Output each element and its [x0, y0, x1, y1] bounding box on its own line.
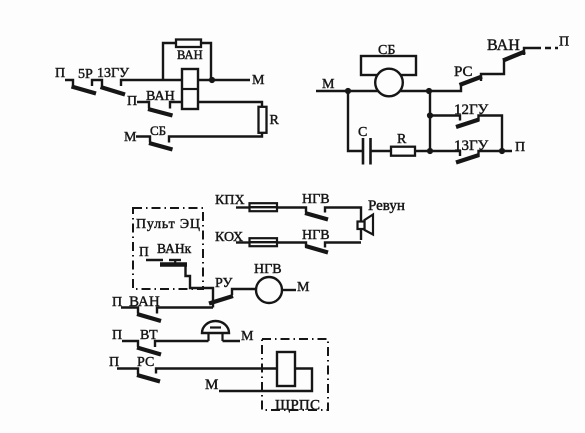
- fuse КПХ: [250, 203, 278, 211]
- wire 12ГУ branch: [430, 116, 460, 121]
- wire: [232, 289, 256, 295]
- wire zigzag to РУ: [186, 266, 214, 308]
- svg-text:М: М: [297, 280, 310, 295]
- switch 13ГУ blade: [456, 155, 479, 163]
- wire: [169, 133, 262, 143]
- wire: [121, 308, 138, 314]
- svg-text:П: П: [127, 94, 137, 109]
- switch 5Р blade: [72, 87, 97, 94]
- svg-text:М: М: [205, 377, 218, 393]
- resistor ВАН: [176, 40, 201, 48]
- svg-text:Ревун: Ревун: [368, 198, 405, 214]
- svg-text:СБ: СБ: [150, 123, 166, 138]
- svg-text:R: R: [397, 132, 407, 147]
- svg-text:М: М: [322, 77, 335, 92]
- wire: [155, 341, 209, 347]
- svg-text:М: М: [252, 73, 265, 88]
- wire: [236, 206, 251, 208]
- wire coil to R: [198, 102, 262, 107]
- resistor R: [259, 107, 267, 133]
- bell СБ gong: [375, 69, 403, 97]
- switch 13ГУ blade: [101, 87, 126, 95]
- bell СБ box: [361, 56, 416, 75]
- wire: [122, 341, 138, 347]
- svg-text:П: П: [112, 328, 122, 343]
- wire: [479, 151, 513, 157]
- svg-text:СБ: СБ: [378, 43, 395, 58]
- svg-text:П: П: [55, 66, 65, 81]
- capacitor С: [363, 138, 371, 165]
- relay coil ВАН: [182, 69, 198, 109]
- relay coil ЩРПС: [277, 352, 295, 386]
- wire: [219, 369, 312, 392]
- svg-text:НГВ: НГВ: [302, 228, 330, 243]
- wire 13ГУ branch: [430, 151, 460, 156]
- wire: [371, 150, 392, 152]
- wire: [170, 102, 182, 109]
- junction dot: [345, 88, 351, 94]
- svg-text:П: П: [139, 244, 149, 259]
- bell ВТ: [202, 321, 229, 333]
- wire resistor branch: [163, 43, 211, 81]
- svg-text:Пульт ЭЦ: Пульт ЭЦ: [136, 217, 200, 232]
- switch СБ blade: [149, 143, 173, 150]
- wire: [481, 60, 504, 81]
- resistor R: [391, 147, 415, 156]
- switch НГВ blade (upper): [305, 213, 328, 220]
- wire: [415, 91, 430, 151]
- switch НГВ blade (lower): [306, 246, 329, 253]
- junction dot: [426, 88, 432, 94]
- svg-text:РС: РС: [137, 355, 154, 370]
- wire: [479, 116, 503, 152]
- junction dot: [499, 148, 505, 154]
- wire: [156, 369, 277, 374]
- wire staircase: [429, 85, 461, 92]
- wire: [137, 102, 149, 109]
- junction dot: [427, 148, 433, 154]
- svg-text:РУ: РУ: [215, 276, 232, 291]
- horn Ревун: [365, 215, 374, 235]
- switch РУ blade: [209, 296, 233, 304]
- fuse КОХ: [250, 238, 278, 246]
- svg-text:РС: РС: [454, 64, 473, 80]
- svg-text:13ГУ: 13ГУ: [97, 66, 129, 81]
- switch ВАН blade: [148, 109, 173, 116]
- wire: [136, 137, 150, 143]
- wire: [92, 80, 102, 86]
- junction dot: [209, 77, 215, 83]
- wire: [117, 369, 138, 375]
- junction dot: [427, 112, 433, 118]
- switch 12ГУ blade: [456, 120, 479, 128]
- svg-text:R: R: [270, 113, 280, 128]
- wire: [223, 340, 241, 342]
- switch РС blade: [460, 77, 483, 86]
- svg-text:П: П: [112, 295, 122, 310]
- wire: [157, 308, 213, 314]
- svg-text:ВАНк: ВАНк: [157, 241, 192, 256]
- svg-text:5Р: 5Р: [78, 67, 93, 82]
- svg-text:НГВ: НГВ: [302, 192, 330, 207]
- svg-text:М: М: [124, 130, 137, 145]
- wire: [146, 259, 163, 261]
- pushbutton ВАНк: [160, 262, 187, 266]
- wire: [282, 289, 296, 291]
- wire: [524, 48, 535, 55]
- wire: [316, 90, 429, 92]
- svg-text:ЩРПС: ЩРПС: [275, 398, 320, 414]
- svg-text:НГВ: НГВ: [254, 262, 282, 277]
- wire dashed to П: [535, 47, 558, 49]
- svg-text:П: П: [559, 35, 569, 50]
- wire: [325, 208, 361, 241]
- wire: [325, 243, 361, 248]
- wire: [198, 79, 250, 81]
- switch РС blade: [137, 375, 160, 382]
- dash-dot box Пульт ЭЦ: [133, 208, 203, 289]
- switch ВТ blade: [137, 348, 161, 355]
- wire left branch: [348, 91, 363, 151]
- svg-text:С: С: [358, 125, 367, 140]
- svg-text:КПХ: КПХ: [215, 193, 245, 208]
- svg-text:ВАН: ВАН: [487, 37, 520, 54]
- dash-dot box ЩРПС: [262, 339, 328, 410]
- svg-text:ВАН: ВАН: [177, 48, 203, 62]
- svg-text:П: П: [515, 140, 525, 155]
- svg-text:М: М: [241, 329, 254, 344]
- wire: [236, 241, 251, 243]
- wire: [277, 243, 306, 248]
- switch ВАН blade: [503, 52, 525, 61]
- wire: [121, 80, 182, 86]
- switch ВАН blade: [137, 314, 161, 321]
- wire: [65, 80, 73, 86]
- wire: [277, 208, 306, 213]
- motor НГВ: [256, 277, 282, 303]
